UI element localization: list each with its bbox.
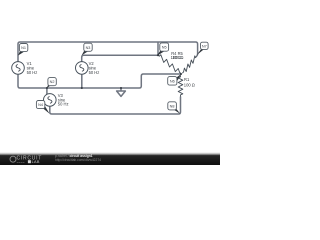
- svg-text:50 Hz: 50 Hz: [58, 102, 69, 107]
- svg-text:N5: N5: [162, 46, 167, 50]
- svg-text:50 Hz: 50 Hz: [27, 70, 38, 75]
- svg-text:N2: N2: [50, 80, 55, 84]
- svg-text:N1: N1: [21, 46, 26, 50]
- svg-text:R1: R1: [184, 77, 190, 82]
- svg-text:50 Hz: 50 Hz: [89, 70, 100, 75]
- svg-text:100 Ω: 100 Ω: [184, 83, 195, 88]
- svg-text:p.rochel / circuit assign1: p.rochel / circuit assign1: [55, 154, 93, 158]
- svg-text:N4: N4: [38, 103, 43, 107]
- svg-text:⌁⌁⌁⌁: ⌁⌁⌁⌁: [17, 160, 25, 164]
- svg-text:LAB: LAB: [32, 160, 40, 164]
- svg-text:N7: N7: [202, 44, 207, 48]
- svg-text:100 Ω: 100 Ω: [172, 55, 183, 60]
- svg-text:http://circuitlab.com/c6vw4227: http://circuitlab.com/c6vw42274: [55, 158, 101, 162]
- svg-text:N8: N8: [170, 104, 175, 108]
- svg-text:N3: N3: [86, 46, 91, 50]
- svg-text:N6: N6: [170, 79, 175, 83]
